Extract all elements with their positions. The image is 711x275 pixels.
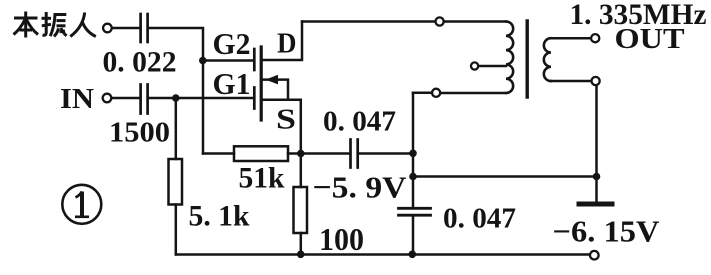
capacitor C 0.047 (coupling) bbox=[349, 140, 352, 168]
resistor R 51k bbox=[203, 152, 234, 155]
capacitor C 1500 bbox=[139, 85, 142, 114]
node ground-line junction bbox=[409, 173, 417, 181]
wire primary bottom lead bbox=[440, 92, 506, 95]
wire down to 51k bbox=[202, 61, 205, 154]
wire bbox=[412, 217, 415, 255]
wire G1 lead bbox=[149, 97, 253, 100]
wire bottom rail bbox=[176, 253, 590, 256]
node secondary-ground junction bbox=[593, 173, 601, 181]
svg-text:5. 1k: 5. 1k bbox=[189, 200, 250, 233]
terminal on top wire bbox=[436, 17, 444, 25]
figure number 1 glyph bbox=[75, 192, 89, 217]
wire down to ground bbox=[595, 85, 598, 201]
wire G2 lead bbox=[203, 59, 253, 62]
capacitor C 0.047 (decoupling) bbox=[399, 207, 431, 210]
label 本振入 (local oscillator input, hand-drawn CJK) bbox=[14, 12, 96, 38]
svg-text:1500: 1500 bbox=[109, 117, 170, 149]
wire bbox=[112, 97, 140, 100]
svg-text:51k: 51k bbox=[239, 162, 285, 195]
wire secondary bottom lead bbox=[551, 80, 592, 83]
svg-text:G2: G2 bbox=[213, 26, 251, 61]
terminal secondary bottom bbox=[592, 77, 600, 85]
resistor R 5.1k bbox=[169, 159, 183, 205]
wire secondary top lead (OUT) bbox=[551, 37, 592, 40]
transistor Q1: channel bbox=[260, 47, 263, 120]
terminal: IN bbox=[103, 94, 112, 103]
terminal: -6.15V rail bbox=[590, 251, 599, 260]
transistor Q1 dual-gate MOSFET: G2 bar bbox=[253, 49, 256, 70]
node IN junction bbox=[172, 94, 180, 102]
wire bbox=[175, 205, 178, 255]
wire down to 5.1k bbox=[175, 98, 178, 159]
svg-text:IN: IN bbox=[60, 83, 94, 115]
svg-text:0. 047: 0. 047 bbox=[443, 204, 516, 235]
svg-text:S: S bbox=[276, 104, 296, 136]
svg-text:D: D bbox=[277, 28, 297, 60]
figure number (1) circle bbox=[62, 185, 101, 224]
terminal center tap bbox=[471, 62, 478, 69]
wire bbox=[112, 27, 139, 30]
transistor Q1: G1 bar bbox=[253, 88, 256, 109]
wire right vertical (primary bottom to rail) bbox=[412, 93, 415, 207]
node G2 junction bbox=[199, 57, 207, 65]
svg-text:0. 047: 0. 047 bbox=[323, 107, 396, 138]
wire ground line bbox=[413, 175, 597, 178]
wire drain lead bbox=[263, 22, 303, 61]
svg-text:0. 022: 0. 022 bbox=[103, 46, 177, 79]
node source junction bbox=[297, 150, 305, 158]
capacitor C 0.022 bbox=[139, 14, 142, 42]
wire source lead bbox=[263, 100, 301, 154]
node cap junction bbox=[409, 150, 417, 158]
svg-text:100: 100 bbox=[319, 221, 364, 257]
wire primary center tap bbox=[478, 65, 506, 68]
ground bbox=[579, 202, 612, 207]
node cap bottom junction bbox=[409, 251, 417, 259]
svg-text:−6. 15V: −6. 15V bbox=[553, 215, 660, 249]
wire bbox=[359, 152, 413, 155]
wire to G2 node bbox=[149, 28, 203, 61]
svg-text:−5. 9V: −5. 9V bbox=[313, 170, 408, 205]
wire to primary bbox=[444, 20, 506, 23]
svg-text:OUT: OUT bbox=[615, 24, 685, 55]
transistor Q1: substrate lead with arrow bbox=[263, 80, 289, 100]
transformer T1 primary winding bbox=[506, 22, 513, 94]
wire top (drain to transformer) bbox=[302, 20, 436, 23]
terminal on primary bottom bbox=[432, 89, 440, 97]
svg-text:G1: G1 bbox=[213, 66, 251, 101]
resistor R 100 bbox=[300, 154, 303, 188]
terminal: local osc input bbox=[103, 24, 112, 33]
transformer T1 secondary winding bbox=[544, 38, 551, 81]
node 100 bottom junction bbox=[297, 251, 305, 259]
transformer T1 core bbox=[526, 21, 529, 97]
terminal OUT bbox=[591, 34, 599, 42]
